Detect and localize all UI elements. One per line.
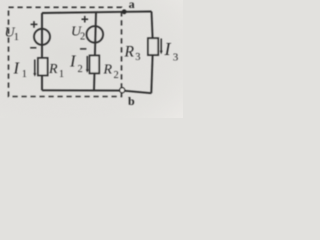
svg-text:R: R [103,63,113,78]
current arrow I2 [86,56,88,71]
wire right branch upper [152,12,153,39]
svg-text:R: R [124,44,135,61]
dashed two-terminal network box [9,7,122,96]
current arrow I3 [160,39,162,53]
resistor R3 [148,38,158,55]
plus of U1 [31,21,38,28]
current arrow I1 [34,60,36,75]
node b [120,88,125,93]
svg-text:2: 2 [114,70,119,81]
minus of U1 [30,47,36,49]
wire branch U1 [41,13,43,90]
svg-text:b: b [128,94,135,108]
svg-text:2: 2 [80,32,85,43]
voltage source U1 [34,29,50,45]
svg-text:1: 1 [59,69,64,80]
resistor R2 [90,56,100,74]
minus of U2 [80,48,86,50]
svg-text:1: 1 [14,32,19,43]
wire bottom bus b [42,90,151,93]
voltage source U2 [87,26,104,43]
wire right branch lower [151,55,152,93]
node a [122,9,127,14]
svg-text:3: 3 [135,52,140,63]
svg-text:1: 1 [22,69,27,80]
wire branch U2 [94,12,96,90]
svg-text:R: R [48,62,58,77]
resistor R1 [38,58,48,75]
wire top bus a [42,12,152,14]
svg-text:I: I [164,39,172,59]
svg-text:2: 2 [78,64,83,75]
plus of U2 [82,16,89,23]
svg-text:3: 3 [173,52,179,64]
svg-text:a: a [129,0,135,11]
